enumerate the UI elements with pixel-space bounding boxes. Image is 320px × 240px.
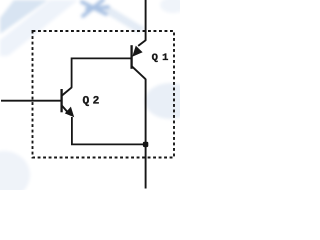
dashed subcircuit box bbox=[33, 31, 175, 158]
wire: Q1 collector down to bottom edge bbox=[145, 79, 147, 189]
Q2 emitter arrow bbox=[65, 107, 74, 118]
junction node dot bbox=[143, 142, 148, 147]
wire: Q1 emitter to top edge bbox=[145, 0, 147, 41]
wire: Q2 emitter down and right to output node bbox=[72, 117, 146, 144]
transistor Q1 (PNP) bbox=[132, 40, 146, 79]
background watermark (decorative) bbox=[0, 0, 195, 199]
svg-text:Q2: Q2 bbox=[83, 95, 103, 107]
Q1 emitter arrow (points toward base bar) bbox=[132, 46, 142, 57]
svg-text:Q1: Q1 bbox=[152, 52, 173, 64]
wire: Q2 collector up and right to Q1 base bbox=[72, 58, 132, 87]
transistor Q2 (NPN) bbox=[62, 87, 72, 112]
wire: input to Q2 base bbox=[1, 100, 61, 102]
